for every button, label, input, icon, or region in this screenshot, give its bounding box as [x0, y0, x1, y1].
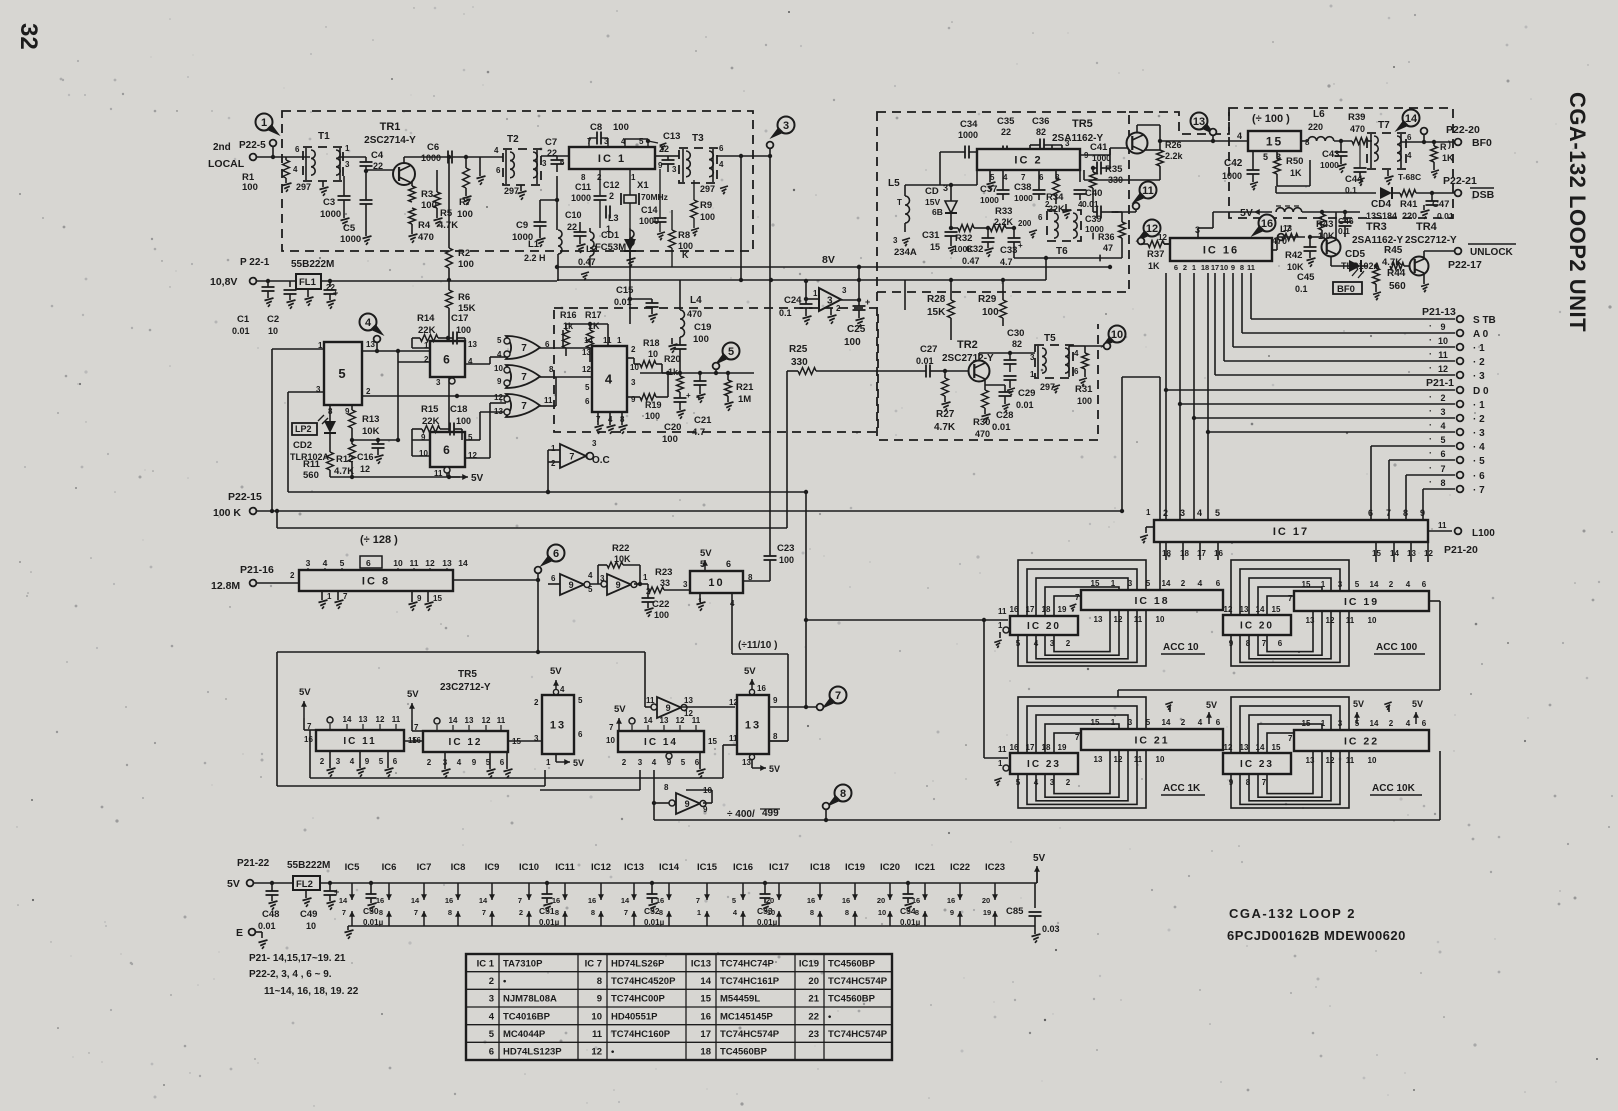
svg-text:2: 2: [534, 698, 539, 707]
svg-text:IC 23: IC 23: [1027, 759, 1061, 770]
IC18: [1081, 590, 1223, 610]
svg-text:7: 7: [1288, 594, 1293, 603]
IC19: [1294, 591, 1429, 611]
svg-text:11: 11: [1134, 615, 1143, 624]
svg-text:8: 8: [1440, 478, 1445, 488]
svg-text:1: 1: [998, 621, 1003, 630]
svg-text:6: 6: [1422, 719, 1427, 728]
svg-text:2: 2: [609, 191, 614, 201]
svg-text:·: ·: [1429, 448, 1432, 458]
svg-text:234A: 234A: [894, 247, 917, 258]
svg-text:3: 3: [306, 558, 311, 568]
svg-text:P22-5: P22-5: [239, 140, 266, 151]
svg-text:10: 10: [606, 736, 615, 745]
svg-text:8: 8: [1246, 778, 1251, 787]
IC14: [618, 731, 704, 752]
svg-text:1: 1: [1111, 579, 1116, 588]
svg-text:1: 1: [551, 444, 556, 453]
svg-text:22: 22: [659, 144, 669, 154]
svg-text:2nd: 2nd: [213, 142, 231, 153]
resistor R4: [409, 208, 416, 224]
svg-text:MC4044P: MC4044P: [503, 1029, 546, 1040]
svg-text:6: 6: [560, 158, 565, 167]
dashed box TR1 section: [282, 111, 753, 251]
svg-text:6PCJD00162B MDEW00620: 6PCJD00162B MDEW00620: [1227, 928, 1406, 943]
svg-text:100 K: 100 K: [213, 507, 241, 519]
svg-text:R16: R16: [560, 310, 577, 320]
terminal UNLOCK: [1455, 248, 1462, 255]
svg-text:· 1: · 1: [1473, 343, 1485, 354]
IC17 to ACC bus verticals: [1165, 542, 1167, 560]
svg-text:4: 4: [1406, 580, 1411, 589]
svg-text:R9: R9: [700, 200, 712, 211]
svg-text:4: 4: [1197, 508, 1202, 518]
svg-text:4: 4: [719, 160, 724, 169]
capacitor C85: [1029, 911, 1042, 913]
marker 6: [548, 545, 565, 562]
svg-text:14: 14: [343, 715, 352, 724]
svg-text:8: 8: [597, 976, 602, 987]
svg-text:9: 9: [950, 908, 954, 917]
svg-text:3: 3: [489, 994, 494, 1005]
svg-text:15V: 15V: [925, 197, 940, 207]
svg-text:8: 8: [664, 783, 669, 792]
svg-text:6: 6: [1074, 367, 1079, 376]
svg-text:+: +: [686, 391, 691, 400]
svg-text:C15: C15: [616, 285, 634, 296]
svg-text:R11: R11: [303, 459, 321, 470]
svg-text:C28: C28: [996, 410, 1013, 421]
svg-text:R23: R23: [655, 567, 672, 578]
svg-text:·: ·: [1429, 420, 1432, 430]
capacitor C9: [534, 221, 547, 223]
svg-text:4: 4: [1074, 349, 1079, 358]
svg-text:10: 10: [591, 1011, 602, 1022]
svg-text:100: 100: [844, 337, 861, 348]
svg-text:R: R: [1440, 142, 1447, 152]
svg-text:C1: C1: [237, 314, 250, 325]
svg-text:C38: C38: [1014, 182, 1031, 193]
ACC100 loop wires: [1231, 560, 1349, 666]
svg-text:C24: C24: [784, 295, 802, 306]
svg-text:14: 14: [1370, 719, 1379, 728]
wire local input: [256, 156, 310, 158]
svg-text:16: 16: [1010, 743, 1019, 752]
svg-text:4.7K: 4.7K: [934, 422, 956, 433]
svg-text:L3: L3: [608, 213, 619, 223]
capacitor C5: [360, 199, 373, 201]
svg-text:R4: R4: [418, 220, 431, 231]
svg-text:12: 12: [582, 365, 591, 374]
svg-text:IC17: IC17: [769, 862, 789, 873]
svg-text:C50: C50: [363, 906, 379, 916]
or-gate 2: [506, 365, 540, 388]
svg-text:13: 13: [660, 716, 669, 725]
svg-text:12: 12: [591, 1047, 602, 1058]
svg-text:1: 1: [1030, 370, 1035, 379]
svg-text:10,8V: 10,8V: [210, 276, 237, 288]
svg-text:1: 1: [1321, 719, 1326, 728]
svg-text:13: 13: [582, 348, 591, 357]
svg-text:5: 5: [681, 758, 686, 767]
svg-text:6: 6: [500, 758, 505, 767]
svg-text:): ): [1448, 139, 1451, 149]
resistor R21: [725, 380, 732, 396]
svg-text:11: 11: [998, 745, 1007, 754]
svg-text:T6: T6: [1056, 246, 1068, 257]
dashed box mixer section: [554, 308, 878, 432]
svg-text:12: 12: [1326, 616, 1335, 625]
capacitor C28: [999, 391, 1012, 393]
svg-text:1: 1: [998, 759, 1003, 768]
svg-text:22: 22: [1001, 127, 1011, 137]
svg-text:3: 3: [672, 165, 677, 174]
svg-text:16: 16: [304, 735, 313, 744]
svg-text:14: 14: [1405, 113, 1418, 125]
bus verticals to IC17: [1165, 273, 1167, 520]
svg-text:9: 9: [497, 377, 502, 386]
wire 10.8V rail: [256, 280, 296, 282]
svg-text:R50: R50: [1286, 156, 1303, 167]
bottom 5V wire of PLL left: [330, 476, 460, 478]
svg-text:10: 10: [648, 349, 658, 359]
svg-text:R3: R3: [421, 189, 433, 200]
svg-text:L5: L5: [888, 178, 900, 189]
svg-text:· 7: · 7: [1473, 485, 1485, 496]
svg-text:IC10: IC10: [519, 862, 539, 873]
svg-text:11: 11: [544, 396, 553, 405]
svg-text:9: 9: [1420, 508, 1425, 518]
ACC bottom long wire: [654, 819, 1440, 821]
svg-text:4: 4: [323, 558, 328, 568]
svg-text:1k: 1k: [668, 367, 679, 377]
terminal node 16: [1278, 234, 1285, 241]
svg-text:13: 13: [1283, 224, 1292, 233]
svg-text:4: 4: [1406, 719, 1411, 728]
svg-text:C14: C14: [641, 205, 658, 215]
svg-text:IC7: IC7: [417, 862, 432, 873]
svg-text:4: 4: [652, 758, 657, 767]
svg-text:C33: C33: [1000, 245, 1017, 256]
svg-text:IC22: IC22: [950, 862, 970, 873]
svg-text:10: 10: [708, 577, 724, 589]
5V arrow right end: [1036, 868, 1038, 883]
svg-text:R27: R27: [936, 409, 955, 420]
svg-text:LOCAL: LOCAL: [208, 158, 245, 170]
svg-text:R20: R20: [664, 354, 681, 364]
svg-text:P22-2, 3, 4 , 6 ~ 9.: P22-2, 3, 4 , 6 ~ 9.: [249, 969, 332, 980]
svg-text:100: 100: [662, 434, 678, 445]
capacitor C6: [447, 151, 449, 164]
svg-text:7: 7: [609, 723, 614, 732]
svg-text:12: 12: [425, 558, 435, 568]
svg-text:14: 14: [449, 716, 458, 725]
svg-text:P21-16: P21-16: [240, 564, 274, 576]
svg-text:R39: R39: [1348, 112, 1365, 123]
svg-text:11: 11: [1247, 263, 1255, 272]
IC 6-block lower: [430, 432, 465, 467]
svg-text:8: 8: [810, 908, 814, 917]
terminal node 7: [817, 704, 824, 711]
svg-text:C11: C11: [575, 182, 591, 192]
wire 5-block pin3: [288, 391, 324, 393]
svg-text:C20: C20: [664, 422, 681, 433]
svg-text:ACC 1K: ACC 1K: [1163, 783, 1201, 794]
svg-text:H: H: [539, 253, 546, 263]
svg-text:7: 7: [518, 896, 522, 905]
svg-text:R25: R25: [789, 344, 808, 355]
svg-text:C9: C9: [516, 220, 528, 231]
svg-text:·: ·: [1429, 349, 1432, 359]
svg-text:32: 32: [15, 23, 42, 50]
svg-text:5: 5: [340, 558, 345, 568]
svg-text:T7: T7: [1378, 120, 1390, 131]
svg-text:100: 100: [1077, 396, 1092, 406]
svg-text:2: 2: [1045, 200, 1050, 209]
svg-text:2: 2: [631, 345, 636, 354]
svg-text:82: 82: [1036, 127, 1046, 137]
svg-text:4.7: 4.7: [692, 427, 705, 438]
svg-text:·: ·: [1429, 463, 1432, 473]
svg-text:297: 297: [700, 184, 715, 194]
svg-text:C19: C19: [694, 322, 711, 333]
svg-text:5: 5: [1146, 579, 1151, 588]
svg-text:11: 11: [998, 607, 1007, 616]
svg-text:3: 3: [1180, 508, 1185, 518]
capacitor C45: [1304, 246, 1317, 248]
svg-text:6: 6: [443, 352, 452, 366]
svg-text:IC20: IC20: [880, 862, 900, 873]
svg-text:4: 4: [588, 571, 593, 580]
wire secondary rail: [557, 279, 1046, 281]
svg-text:5: 5: [497, 336, 502, 345]
svg-text:8: 8: [1246, 639, 1251, 648]
10-block pin4 divider bracket: [731, 593, 733, 654]
svg-text:82: 82: [1012, 339, 1022, 349]
svg-text:TR5: TR5: [1072, 118, 1093, 130]
svg-text:1: 1: [345, 144, 350, 153]
svg-text:R7: R7: [459, 197, 471, 208]
marker 16: [1259, 215, 1276, 232]
terminal node 5: [713, 363, 720, 370]
svg-text:12: 12: [676, 716, 685, 725]
svg-text:10K: 10K: [362, 426, 380, 437]
dashed box TR5 section: [877, 112, 1129, 292]
resistor R1: [283, 160, 290, 178]
svg-text:5: 5: [1146, 718, 1151, 727]
IC 6-block upper: [430, 341, 465, 377]
svg-text:1: 1: [1146, 508, 1151, 517]
svg-text:3: 3: [1050, 778, 1055, 787]
svg-text:7: 7: [414, 908, 418, 917]
svg-text:· 4: · 4: [1473, 442, 1485, 453]
svg-text:P 22-1: P 22-1: [240, 257, 270, 268]
svg-text:6: 6: [726, 559, 731, 569]
terminal node 8: [823, 803, 830, 810]
svg-text:C12: C12: [603, 180, 620, 190]
svg-text:100: 100: [457, 209, 473, 220]
svg-text:13: 13: [1094, 755, 1103, 764]
svg-text:8: 8: [581, 173, 586, 182]
wire x1122 vertical: [1121, 377, 1123, 511]
svg-text:BF0: BF0: [1337, 284, 1355, 295]
svg-text:13: 13: [1193, 116, 1205, 128]
svg-text:16: 16: [445, 896, 453, 905]
svg-text:1: 1: [1321, 580, 1326, 589]
svg-text:6: 6: [1216, 579, 1221, 588]
capacitor C13b: [662, 159, 675, 161]
svg-text:13: 13: [1240, 605, 1249, 614]
svg-text:7: 7: [1262, 639, 1267, 648]
wire T1 to C4: [340, 156, 366, 158]
capacitor C21: [694, 380, 707, 382]
svg-text:13: 13: [684, 696, 693, 705]
svg-text:8: 8: [840, 788, 846, 800]
svg-text:C49: C49: [300, 909, 317, 920]
svg-text:5: 5: [588, 585, 593, 594]
resistor R3: [409, 186, 416, 202]
svg-text:R22: R22: [612, 543, 629, 554]
svg-text:R30: R30: [973, 417, 990, 428]
transformer T6: [1047, 210, 1081, 241]
svg-text:16: 16: [376, 896, 384, 905]
svg-text:1K: 1K: [1148, 261, 1160, 271]
svg-text:6: 6: [551, 574, 556, 583]
svg-text:DSB: DSB: [1472, 189, 1495, 201]
svg-text:11: 11: [1438, 521, 1447, 530]
svg-text:T3: T3: [692, 133, 704, 144]
svg-text:11: 11: [410, 558, 419, 568]
6-block upper pin3 stub: [449, 378, 455, 384]
transistor TR1: [393, 163, 415, 185]
IC20 second: [1223, 615, 1291, 635]
svg-text:6: 6: [1216, 718, 1221, 727]
svg-text:0.01: 0.01: [258, 921, 276, 931]
svg-text:100: 100: [458, 259, 474, 270]
svg-text:2: 2: [320, 757, 325, 766]
13-block first: [542, 695, 574, 754]
svg-text:12: 12: [360, 464, 370, 474]
svg-text:C18: C18: [450, 404, 467, 415]
svg-text:22: 22: [326, 283, 335, 292]
svg-text:23C2712-Y: 23C2712-Y: [440, 682, 491, 693]
svg-text:13: 13: [1094, 615, 1103, 624]
svg-text:4.7: 4.7: [1000, 257, 1013, 267]
svg-text:14: 14: [584, 336, 593, 345]
svg-text:1k: 1k: [563, 321, 574, 331]
svg-text:1: 1: [813, 289, 818, 298]
wire TR5 emitter to 15box: [1144, 149, 1160, 151]
svg-text:330: 330: [1108, 175, 1123, 185]
svg-text:IC 12: IC 12: [449, 737, 483, 748]
svg-text:3: 3: [1065, 139, 1070, 148]
svg-text:10: 10: [494, 364, 503, 373]
svg-text:470: 470: [1350, 124, 1365, 134]
svg-text:1000: 1000: [1014, 193, 1033, 203]
svg-text:100: 100: [645, 411, 660, 421]
terminal node 10: [1104, 343, 1111, 350]
svg-text:C25: C25: [847, 324, 866, 335]
wire x806 vertical: [805, 492, 807, 707]
capacitor C48: [266, 890, 279, 892]
svg-text:21: 21: [808, 994, 819, 1005]
svg-text:12: 12: [1326, 756, 1335, 765]
svg-text:5V: 5V: [769, 764, 780, 774]
boxed BFO label: [1333, 282, 1362, 294]
svg-text:3: 3: [631, 378, 636, 387]
gate3 output wire: [540, 405, 556, 407]
transistor TR5: [1127, 133, 1148, 154]
svg-text:12: 12: [376, 715, 385, 724]
svg-text:TC74HC160P: TC74HC160P: [611, 1029, 671, 1040]
wire 5-block pin2 to gates: [362, 395, 506, 397]
svg-text:2.2k: 2.2k: [1165, 151, 1184, 161]
svg-text:5V: 5V: [407, 689, 419, 700]
svg-text:12: 12: [729, 698, 738, 707]
svg-text:9: 9: [417, 594, 422, 603]
svg-text:6: 6: [585, 397, 590, 406]
svg-text:TC74HC574P: TC74HC574P: [720, 1029, 780, 1040]
svg-text:IC 22: IC 22: [1344, 735, 1379, 747]
svg-text:C29: C29: [1018, 388, 1035, 399]
resistor R2: [446, 248, 453, 268]
svg-text:R28: R28: [927, 294, 946, 305]
svg-text:7: 7: [307, 722, 312, 731]
IC 4-block: [592, 346, 627, 412]
svg-text:IC 19: IC 19: [1344, 596, 1379, 608]
svg-text:C13: C13: [663, 131, 680, 142]
svg-text:22: 22: [808, 1011, 819, 1022]
svg-text:220: 220: [1402, 211, 1417, 221]
feedback wire 2: [544, 770, 546, 786]
svg-text:TC74HC574P: TC74HC574P: [828, 976, 888, 987]
svg-text:0.47: 0.47: [578, 257, 596, 267]
svg-text:15: 15: [1091, 579, 1100, 588]
svg-text:10: 10: [1156, 755, 1165, 764]
svg-text:470: 470: [687, 309, 702, 319]
svg-text:2: 2: [836, 304, 841, 313]
wire IC19 right down: [1429, 600, 1440, 602]
svg-text:TC74HC74P: TC74HC74P: [720, 958, 775, 969]
svg-text:16: 16: [842, 896, 850, 905]
svg-text:CD5: CD5: [1345, 249, 1365, 260]
svg-text:5V: 5V: [1353, 699, 1364, 709]
svg-text:IC5: IC5: [345, 862, 361, 873]
svg-text:6: 6: [719, 144, 724, 153]
svg-text:IC16: IC16: [733, 862, 753, 873]
svg-text:5: 5: [338, 366, 347, 381]
svg-text:7: 7: [569, 452, 574, 462]
svg-text:6: 6: [578, 730, 583, 739]
svg-text:5: 5: [1215, 508, 1220, 518]
svg-text:19: 19: [983, 908, 991, 917]
feedback wires divider row: [277, 651, 645, 653]
svg-text:4: 4: [605, 372, 614, 387]
svg-text:7: 7: [521, 401, 527, 412]
svg-text:FL2: FL2: [296, 879, 313, 890]
svg-text:11: 11: [692, 716, 701, 725]
svg-text:2: 2: [1183, 263, 1187, 272]
svg-text:C54: C54: [900, 906, 916, 916]
wire x1122 to ACC top: [1122, 376, 1160, 378]
or-gate 3: [506, 394, 540, 417]
svg-text:L6: L6: [1313, 109, 1325, 120]
filter FL2: [293, 876, 320, 890]
svg-text:13: 13: [465, 716, 474, 725]
svg-text:IC 20: IC 20: [1240, 621, 1274, 632]
svg-text:7: 7: [835, 690, 841, 702]
diode CD4: [1380, 187, 1392, 199]
